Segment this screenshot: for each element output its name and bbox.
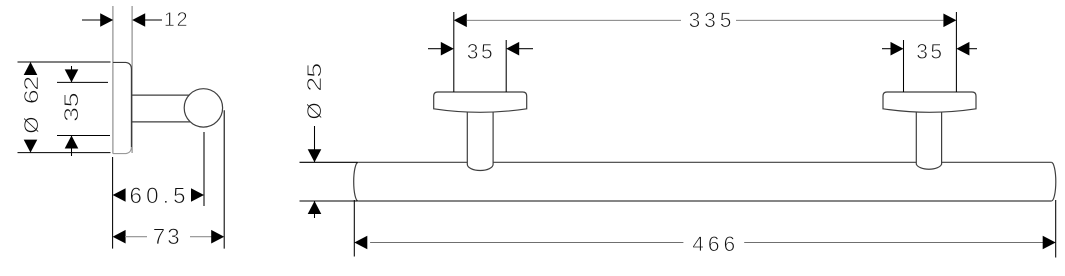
svg-text:35: 35 — [916, 41, 944, 64]
dim 35L arrow down — [65, 69, 79, 82]
dim 60.5 right extension line — [203, 132, 205, 206]
dim 35B arrow right — [956, 42, 969, 56]
dim 60.5 arrow right — [191, 188, 204, 202]
svg-text:12: 12 — [164, 9, 189, 31]
dim 35B right leader — [969, 48, 977, 50]
dim 62 top extension line — [18, 61, 111, 63]
dim 35L lower tail — [71, 136, 73, 157]
dim 35B left leader — [882, 48, 891, 50]
dim 73 shaft left — [125, 236, 147, 238]
svg-text:60.5: 60.5 — [130, 183, 190, 208]
dim 466 arrow left — [354, 236, 367, 250]
svg-text:5: 5 — [61, 92, 83, 107]
dim 25 upper tail — [314, 126, 316, 162]
bar top line left part — [358, 161, 467, 163]
bar top line right part — [942, 161, 1052, 163]
dim 60.5 left extension line — [112, 157, 114, 249]
dim 60.5 arrow left — [113, 188, 126, 202]
wall plate left edge (gray) — [112, 6, 114, 154]
svg-text:6: 6 — [21, 89, 43, 104]
dim 466 left extension line (bar end) — [353, 200, 355, 257]
bar right end cap arc — [1051, 162, 1055, 201]
dim 335 shaft left — [467, 19, 681, 21]
dim 25 label — [304, 63, 326, 120]
dim 25 bottom extension line — [300, 200, 358, 202]
dim 25 arrow up — [308, 201, 322, 214]
dim 35L bottom extension line — [57, 135, 110, 137]
dim 12 arrow left — [100, 13, 113, 27]
dim 62 bottom extension line — [18, 152, 111, 154]
dim 466 arrow right — [1043, 236, 1056, 250]
dim 35L upper tail — [71, 66, 73, 82]
svg-text:35: 35 — [467, 41, 495, 64]
dim 335 arrow left — [454, 14, 467, 28]
dim 466 shaft right — [744, 242, 1043, 244]
ball end — [184, 89, 222, 127]
dim 35A extension line inner — [505, 40, 507, 92]
dim 335 left extension line — [453, 12, 455, 92]
dim 12 leader left — [82, 19, 101, 21]
dim 25 arrow down — [308, 149, 322, 162]
svg-text:Ø: Ø — [304, 102, 326, 119]
rosette side view — [114, 62, 132, 153]
svg-text:2: 2 — [21, 76, 43, 91]
dim 35A right leader — [519, 48, 533, 50]
dim 12 arrow right — [132, 13, 145, 27]
svg-text:5: 5 — [304, 63, 326, 78]
dim 466 shaft left — [370, 242, 683, 244]
dim 35B extension line inner — [903, 40, 905, 92]
svg-text:2: 2 — [304, 77, 326, 92]
dim 335 right extension line — [955, 12, 957, 92]
arm top line — [132, 94, 196, 96]
bar left end cap arc — [354, 162, 358, 201]
dim 73 right extension line — [223, 110, 225, 248]
svg-text:335: 335 — [689, 9, 736, 32]
bar bottom line — [358, 200, 1051, 202]
dim 35L top extension line — [57, 81, 108, 83]
dim 25 lower tail — [314, 201, 316, 218]
dim 35A arrow left — [441, 42, 454, 56]
wall plate right edge (gray) — [131, 6, 133, 153]
left post cone — [467, 112, 493, 171]
dim 62 arrow up — [24, 62, 38, 75]
svg-text:73: 73 — [153, 224, 182, 249]
dim 62 arrow down — [24, 140, 38, 153]
dim 35L arrow up — [65, 136, 79, 149]
dim 466 right extension line (bar end) — [1055, 200, 1057, 258]
dim 35A left leader — [428, 48, 441, 50]
dim 73 shaft right — [190, 236, 212, 238]
bar top line middle part — [493, 161, 916, 163]
svg-text:466: 466 — [692, 233, 739, 256]
dim 35L label — [61, 92, 83, 122]
arm bottom line — [132, 121, 196, 123]
dim 335 shaft right — [736, 19, 943, 21]
svg-text:3: 3 — [61, 107, 83, 122]
dim 335 arrow right — [943, 14, 956, 28]
dim 73 arrow right — [211, 230, 224, 244]
svg-text:Ø: Ø — [21, 117, 43, 134]
right post cone — [916, 112, 941, 170]
dim 73 arrow left — [113, 230, 126, 244]
right post rosette cap — [883, 92, 976, 112]
dim 25 top extension line — [300, 161, 358, 163]
left post rosette cap — [434, 92, 527, 112]
dim 12 leader right — [145, 19, 163, 21]
dim 35B arrow left — [891, 42, 904, 56]
dim 62 label — [21, 76, 43, 134]
dim 35A arrow right — [506, 42, 519, 56]
